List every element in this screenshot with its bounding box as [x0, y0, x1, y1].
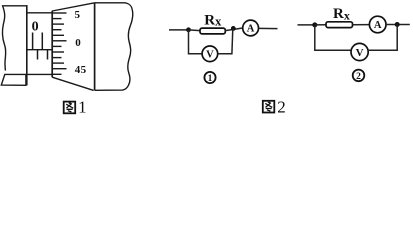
thimble bottom bevel — [52, 77, 93, 90]
svg-text:0: 0 — [32, 20, 39, 35]
micrometer frame lower trapezoid piece — [1, 74, 26, 85]
micrometer frame left piece (wavy torn edge) — [2, 6, 26, 71]
main scale mm tick — [41, 33, 43, 50]
svg-text:A: A — [247, 24, 255, 35]
sleeve top edge — [26, 12, 52, 14]
wire: voltmeter branch left — [189, 30, 203, 54]
main scale half-mm tick — [37, 50, 39, 60]
thimble top bevel — [52, 3, 94, 11]
svg-text:45: 45 — [75, 64, 87, 76]
wire: resistor to ammeter — [353, 24, 370, 26]
wire: resistor to junction — [225, 28, 243, 31]
wire: left lead — [298, 24, 315, 26]
voltmeter V (circuit 1) — [202, 46, 218, 62]
label circled 1 — [204, 72, 215, 83]
svg-text:0: 0 — [75, 37, 81, 49]
resistor Rx (circuit 2) — [326, 22, 353, 28]
wire: voltmeter branch right — [368, 25, 397, 51]
node: right junction dot — [395, 22, 400, 27]
thimble right edge / body left edge — [94, 3, 96, 91]
label circled 2 — [353, 70, 365, 82]
node: right junction dot — [231, 26, 236, 31]
svg-text:V: V — [206, 49, 214, 60]
wire: dot to resistor — [189, 29, 201, 32]
caption 图1 : hand-drawn 图 glyph — [64, 102, 75, 114]
sleeve bottom edge — [4, 73, 52, 75]
ammeter A (circuit 1) — [243, 20, 259, 36]
node: left junction dot — [186, 27, 191, 32]
ammeter A (circuit 2) — [369, 16, 386, 33]
svg-text:V: V — [356, 47, 364, 59]
wire: dot to resistor — [315, 24, 326, 26]
caption 图2 : hand-drawn 图 glyph — [263, 101, 275, 113]
svg-text:Rx: Rx — [204, 12, 222, 28]
wire: left lead — [169, 29, 189, 31]
svg-text:Rx: Rx — [333, 6, 350, 22]
svg-text:5: 5 — [74, 9, 80, 21]
svg-text:2: 2 — [277, 97, 286, 116]
svg-text:1: 1 — [78, 98, 87, 116]
sleeve left edge / frame right edge — [26, 5, 28, 85]
voltmeter V (circuit 2) — [351, 43, 368, 60]
thimble scale ticks — [52, 13, 66, 74]
wire: voltmeter branch right — [218, 29, 233, 54]
thimble left edge (scale edge) — [51, 11, 53, 77]
resistor Rx (circuit 1) — [200, 28, 225, 34]
node: left junction dot — [312, 22, 317, 27]
wire: voltmeter branch left — [315, 25, 351, 50]
micrometer body right piece (wavy torn edge) — [95, 3, 133, 91]
svg-text:A: A — [374, 20, 382, 31]
svg-text:2: 2 — [356, 72, 361, 82]
sleeve main-scale reference line — [26, 49, 52, 51]
main scale mm tick (0) — [32, 33, 34, 50]
wire: ammeter to right dot and lead — [386, 24, 410, 26]
wire: right lead — [259, 27, 278, 29]
svg-text:1: 1 — [208, 74, 213, 84]
main scale half-mm tick — [47, 50, 49, 60]
